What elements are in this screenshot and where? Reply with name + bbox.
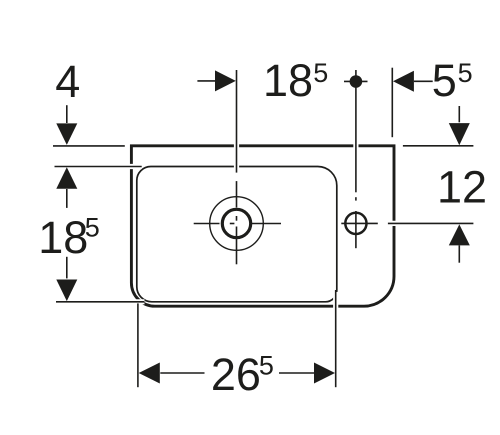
svg-text:26: 26 — [211, 349, 261, 400]
svg-text:12: 12 — [437, 162, 487, 213]
svg-text:5: 5 — [458, 58, 473, 88]
svg-text:5: 5 — [313, 58, 328, 88]
svg-text:4: 4 — [55, 56, 80, 107]
svg-text:5: 5 — [85, 213, 100, 243]
svg-text:18: 18 — [263, 55, 313, 106]
svg-text:5: 5 — [432, 55, 457, 106]
svg-text:5: 5 — [259, 351, 274, 381]
svg-text:18: 18 — [38, 212, 88, 263]
